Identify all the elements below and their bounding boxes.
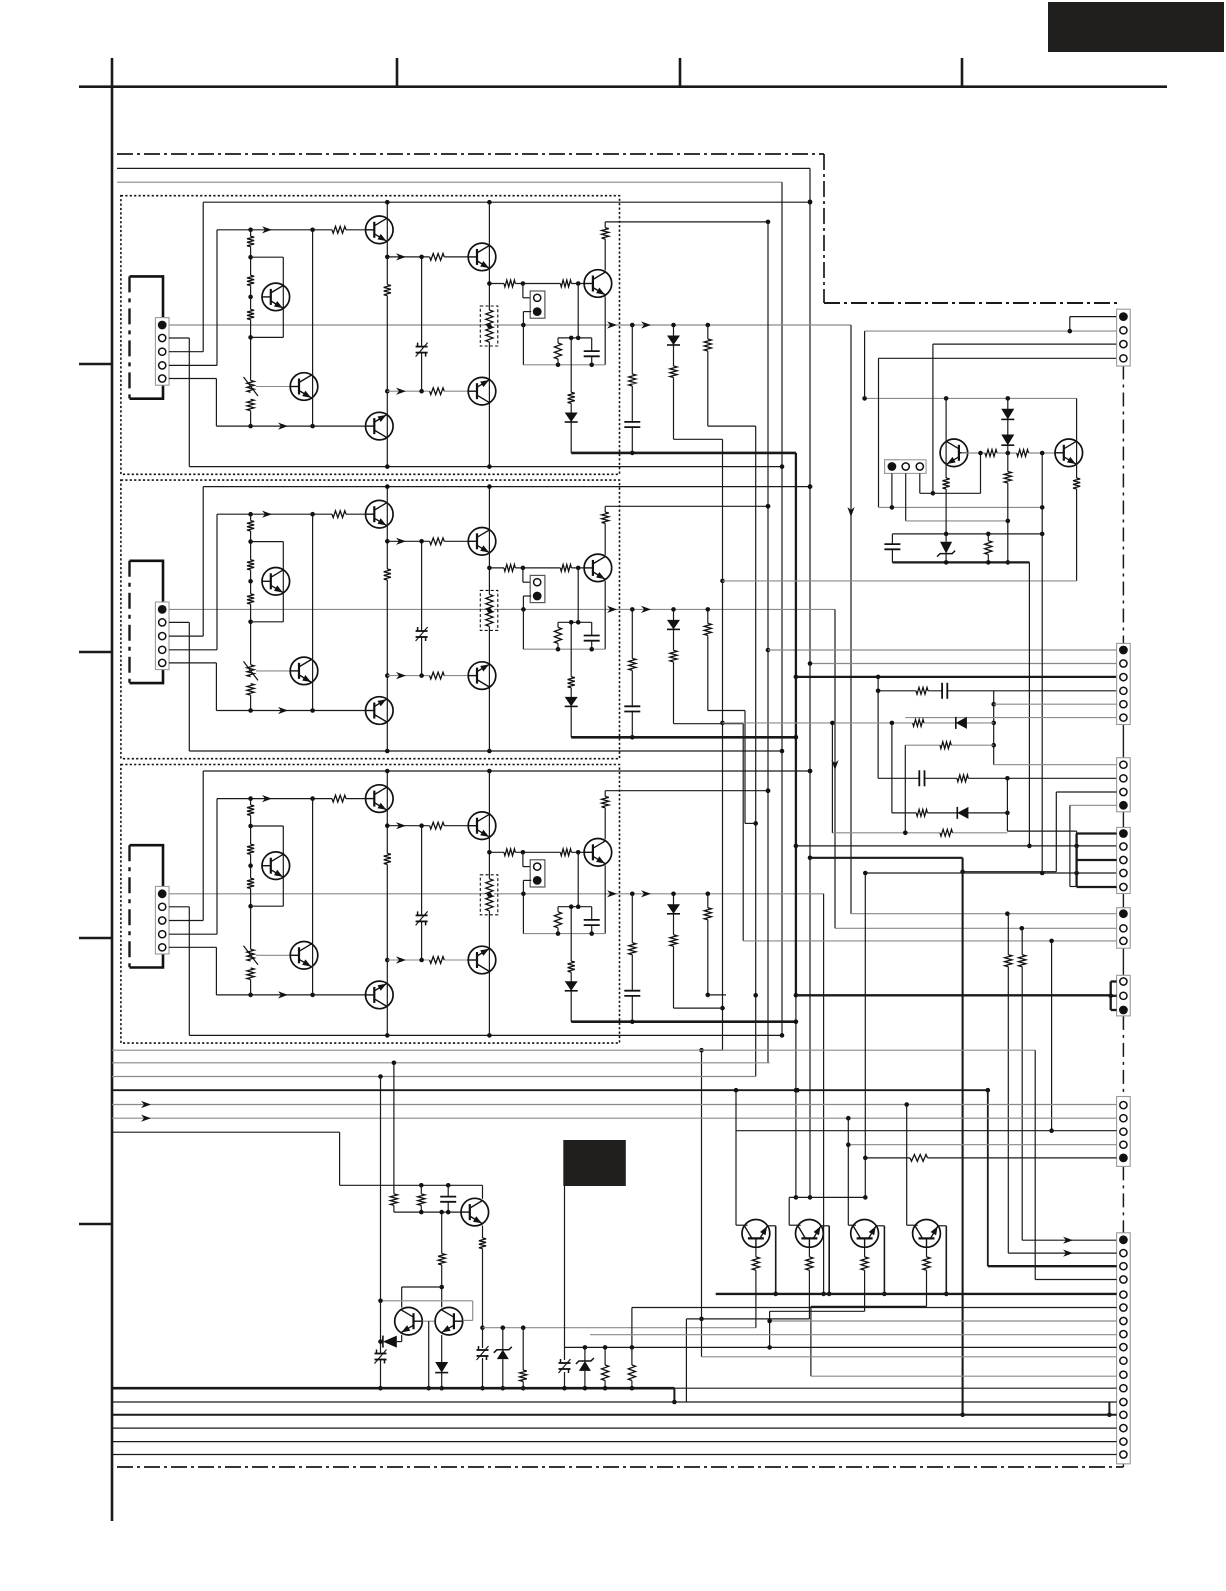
- dark bus vertical to CN6 pin3: [987, 1090, 989, 1266]
- sub-circuit emitter return to block chain: [723, 580, 1077, 582]
- block3 resistor-chain stub to heavy wire: [708, 994, 726, 996]
- heavy wire CN6 pin3: [988, 1265, 1117, 1267]
- block 1 Q1 emitter line to Q3: [387, 256, 468, 258]
- wire supply A to CN2 pin2: [810, 663, 1117, 665]
- wire CN6 pin11: [811, 1375, 1117, 1377]
- block 1 emitter return line: [523, 364, 605, 366]
- bias output line to Q14 base: [483, 1327, 756, 1329]
- transistor Q14: [742, 1220, 770, 1248]
- diode D22: [565, 697, 578, 707]
- block 3 resistor-chain joins heavy supply: [706, 993, 711, 998]
- block 3 Q7 collector wire with resistor: [604, 791, 606, 840]
- block 1 RC network top wire: [558, 337, 592, 339]
- wire CN6 bottom to chain: [1122, 1464, 1124, 1467]
- block 3 bottom rail: [189, 1034, 782, 1036]
- diode D-sub2: [1001, 435, 1014, 446]
- resistor R307: [383, 853, 392, 864]
- block 1 pin3 wire to top rail: [169, 351, 203, 353]
- transistor Q16: [366, 412, 394, 440]
- resistor R-QR emitter: [1072, 478, 1081, 489]
- block 2 RC network top wire: [558, 621, 592, 623]
- heavy output emitter rail to CN6 pin5: [716, 1293, 1117, 1295]
- resistor R318: [703, 908, 712, 920]
- wire CN6 pin8: [590, 1334, 1117, 1336]
- resistor R118: [703, 339, 712, 351]
- resistor R316: [628, 943, 637, 955]
- block 3 RC network top wire: [558, 906, 592, 908]
- transistor Q22 loop wire: [251, 541, 284, 543]
- resistor R-QL emitter: [942, 478, 951, 489]
- wire CN6 pin6: [632, 1307, 1117, 1309]
- block 1 zener D11: [416, 347, 428, 351]
- transistor Q27 output: [584, 554, 612, 582]
- wire CN1 pin1 jog: [1070, 316, 1117, 318]
- block 3 Q7 emitter wire: [604, 865, 606, 933]
- block 1 diode-chain jog to lower bus: [702, 1049, 723, 1051]
- resistor R106 horizontal: [332, 225, 346, 234]
- mute cluster riser to black box area: [564, 1186, 566, 1347]
- block 3 top rail: [203, 770, 810, 772]
- resistor R102: [246, 275, 255, 285]
- block 2 Q3-base to mid-line vertical: [421, 541, 423, 675]
- resistor R302: [246, 844, 255, 854]
- block 3 diode chain D33: [673, 894, 675, 1008]
- resistor R111: [560, 279, 571, 288]
- bias jumper connector CN-2b: [522, 568, 524, 582]
- capacitor C-row1: [943, 683, 946, 699]
- CNJ heavy bracket: [1110, 982, 1112, 1011]
- block 1 top rail: [203, 201, 810, 203]
- connector CN5b: [1117, 1097, 1131, 1167]
- block 2 Q1 emitter line to Q3: [387, 540, 468, 542]
- resistor R-m2: [631, 1347, 633, 1365]
- mirror pair base rail: [381, 1300, 473, 1302]
- capacitor C33: [591, 907, 593, 920]
- block 3 pin3 wire to top rail: [169, 920, 203, 922]
- resistor R110: [504, 279, 515, 288]
- block 2 input connector bracket: [130, 561, 164, 683]
- Q11 emitter wire with resistor: [482, 1226, 484, 1328]
- bias vertical from bus 1076: [380, 1077, 382, 1389]
- wire CN4 pin4 net vertical: [864, 873, 866, 1197]
- resistor R116: [628, 374, 637, 386]
- block 1 jumper to signal/emitter vertical: [522, 312, 524, 365]
- network spine 1: [877, 677, 879, 778]
- capacitor C-sub: [891, 534, 893, 544]
- block 2 signal to CN5a pin2: [818, 608, 835, 610]
- connector CN1: [1117, 309, 1131, 366]
- resistor R218: [703, 623, 712, 635]
- connector CN3: [1117, 758, 1131, 812]
- block 1 heavy output common wire: [571, 452, 796, 455]
- wire CN1 pin4 to 3-pin connector: [879, 357, 1118, 359]
- Q16 collector vertical: [847, 1118, 849, 1225]
- Q14 base resistor leg: [755, 1247, 757, 1327]
- resistor R-row6: [940, 828, 953, 837]
- block 2 resistor-chain wire down: [708, 710, 745, 712]
- amplifier block 1 dashed border: [121, 196, 620, 475]
- wire CN6 pin1: [1022, 1239, 1116, 1241]
- black component box: [563, 1140, 626, 1186]
- board boundary chain line toward CN1: [824, 302, 1120, 304]
- connector CN-21 input 5-pin: [155, 602, 169, 670]
- resistor R203: [246, 594, 255, 604]
- wire CN6 pin2 line: [1008, 1252, 1116, 1254]
- block 3 Q7 collector line exiting right: [605, 790, 768, 792]
- block 2 emitter return line: [523, 648, 605, 650]
- block 1 Q7 collector wire with resistor: [604, 222, 606, 271]
- frame tick left 1: [79, 363, 112, 366]
- resistor R207: [383, 569, 392, 580]
- resistor R-row3: [940, 741, 951, 750]
- QL/QR base line with resistors: [962, 452, 1055, 454]
- capacitor C-row4: [920, 770, 923, 786]
- CN6 pin13-14 bracket: [1108, 1402, 1110, 1415]
- resistor R310: [504, 848, 515, 857]
- transistor Q15: [468, 377, 496, 405]
- block 2 pin3 wire to top rail: [169, 635, 203, 637]
- board boundary chain CN3-CN4: [1122, 812, 1124, 828]
- block 2 board-edge chain segment: [128, 561, 130, 683]
- resistor R311: [560, 848, 571, 857]
- block 3 jumper to signal/emitter vertical: [522, 880, 524, 933]
- wire Q15 collector feed: [789, 1196, 865, 1198]
- diode stack D-sub1: [1007, 398, 1009, 453]
- transistor Q15: [796, 1220, 824, 1248]
- transistor QR: [1055, 439, 1083, 467]
- block 2 resistor chain R218: [707, 609, 709, 710]
- diode D-row2: [956, 717, 967, 729]
- wire CN6 pin15: [112, 1427, 1117, 1429]
- QR collector-emitter vertical: [1076, 398, 1078, 478]
- Q12 base stub: [422, 1320, 434, 1322]
- block 1 Q3 emitter / driver line: [489, 283, 584, 285]
- wire Q12 base net to ground bus: [428, 1321, 430, 1388]
- wire CN1 pin2 to sub-circuit: [865, 330, 1117, 332]
- resistor R201: [246, 521, 255, 531]
- capacitor C24: [624, 707, 640, 710]
- transistor Q34: [290, 942, 318, 970]
- resistor R308: [430, 821, 445, 830]
- network spine B: [1006, 778, 1008, 831]
- block 1 diode chain down: [570, 338, 572, 453]
- resistor R-row2: [913, 719, 924, 728]
- capacitor C-b1: [447, 1185, 449, 1196]
- block 1 Q3/Q5 vertical: [488, 202, 490, 466]
- network spine A: [993, 691, 995, 765]
- heavy auxiliary supply horizontal: [810, 857, 963, 859]
- transistor Q12: [395, 1307, 423, 1335]
- connector CN4: [1117, 827, 1131, 893]
- transistor Q26: [366, 697, 394, 725]
- wire T7 common to CN2 pin1: [768, 649, 1117, 651]
- connector CN-31 input 5-pin: [155, 886, 169, 954]
- block 2 mid line to Q5: [387, 675, 468, 677]
- network heavy line to CN2 pin3: [796, 676, 1117, 678]
- block 2 Q3 emitter / driver line: [489, 567, 584, 569]
- Q15 base resistor leg: [808, 1247, 810, 1319]
- page frame border: [79, 85, 1167, 88]
- block 2 upper bias line: [217, 513, 366, 515]
- block 1 Q1 collector-emitter vertical: [386, 202, 388, 284]
- block 1 signal to CN5a pin1: [818, 324, 851, 326]
- block 2 Q1 collector-emitter vertical: [386, 487, 388, 569]
- block 2 pin5 wire to lower bias line: [169, 662, 217, 664]
- diode stack lower wire: [1007, 453, 1009, 562]
- block 1 input connector bracket: [130, 276, 164, 398]
- transistor Q37 output: [584, 839, 612, 867]
- block 2 Q7 emitter wire: [604, 581, 606, 649]
- block 3 resistor chain wire: [250, 799, 252, 950]
- transistor Q11: [461, 1198, 489, 1226]
- block 3 emitter return line: [523, 933, 605, 935]
- block 3 lower bias line: [216, 994, 365, 996]
- block 2 Q4/Q6 vertical wire: [312, 514, 314, 710]
- wire CN6 pin10: [702, 1356, 1117, 1358]
- emitter resistor dashed box R112: [480, 306, 498, 346]
- resistor R-sub: [987, 534, 989, 541]
- heavy ground bus: [112, 1387, 674, 1390]
- frame tick left 2: [79, 651, 112, 654]
- board boundary chain line right upper: [823, 154, 825, 303]
- heavy wire supply to CNJ: [796, 994, 1111, 996]
- resistor R-mute: [910, 1154, 928, 1163]
- network row5 R+diode: [892, 812, 1008, 814]
- block 3 heavy output common wire: [571, 1020, 796, 1023]
- block 2 Q7 collector wire with resistor: [604, 506, 606, 555]
- board boundary chain CN5a-CNJ: [1122, 948, 1124, 975]
- network spine 3: [904, 745, 906, 833]
- resistor R315: [567, 961, 576, 972]
- wire CN1 pin3 to QL base node: [933, 343, 1117, 345]
- block 3 upper bias line: [217, 798, 366, 800]
- frame tick left 4: [79, 1223, 112, 1226]
- block 3 signal line from pin1: [169, 893, 818, 895]
- board boundary chain CN4-CN5a: [1122, 893, 1124, 907]
- block 2 cap chain C24: [631, 609, 633, 737]
- zener group bottom heavy wire: [892, 561, 1029, 563]
- resistor R-sp2: [1018, 955, 1027, 967]
- resistor R314: [557, 907, 559, 912]
- transistor Q35: [468, 946, 496, 974]
- block 3 diode chain down: [570, 907, 572, 1022]
- block 1 Q4/Q6 vertical wire: [312, 230, 314, 426]
- transistor Q16: [851, 1220, 879, 1248]
- resistor R214: [557, 622, 559, 627]
- resistor R107: [383, 285, 392, 296]
- amplifier block 2 dashed border: [121, 480, 620, 759]
- block 1 resistor-chain wire down: [708, 425, 756, 427]
- block 3 board-edge chain segment: [128, 845, 130, 967]
- wire CN6 pin4: [1035, 1279, 1116, 1281]
- CN4 heavy bracket: [1075, 834, 1077, 888]
- resistor R-b2: [420, 1185, 422, 1194]
- wire CN6 pin6 riser: [631, 1308, 633, 1348]
- transistor Q12 loop wire: [251, 256, 284, 258]
- resistor R206 horizontal: [332, 510, 346, 519]
- transistor Q13: [468, 243, 496, 271]
- block 2 top rail: [203, 486, 810, 488]
- resistor R117: [669, 366, 678, 378]
- resistor R101: [246, 236, 255, 246]
- block 2 signal line from pin1: [169, 608, 818, 610]
- frame tick top 3: [961, 58, 964, 87]
- block 2 diode chain down: [570, 622, 572, 737]
- zener D-sub3: [945, 534, 947, 542]
- resistor R115: [567, 392, 576, 403]
- wire CN6 pin7: [770, 1320, 1117, 1322]
- connector CNJ 3-pin jumper: [1117, 975, 1131, 1016]
- diode D33: [667, 904, 680, 914]
- wire CN6 pin12 continuation: [674, 1387, 1116, 1389]
- variable resistor VR31: [246, 949, 255, 961]
- block 2 pin2 wire to bottom rail: [169, 621, 189, 623]
- Q17 base resistor leg: [926, 1247, 928, 1306]
- block 3 pin4 wire to upper bias line: [169, 933, 217, 935]
- resistor R306 horizontal: [332, 794, 346, 803]
- block 2 diode chain D23: [673, 609, 675, 723]
- bus line y1050: [112, 1049, 1035, 1051]
- block 2 pin4 wire to upper bias line: [169, 649, 217, 651]
- diode D13: [667, 336, 680, 346]
- wire supply line A horizontal: [117, 167, 810, 169]
- block 1 lower bias line: [216, 425, 365, 427]
- block 1 signal line from pin1: [169, 324, 818, 326]
- resistor R-base-left: [985, 449, 997, 458]
- diode D23: [667, 620, 680, 630]
- transistor Q32 loop wire: [251, 825, 284, 827]
- protector Z-b1: [482, 1328, 484, 1348]
- Q14 collector vertical: [735, 1131, 737, 1226]
- block 2 jumper to signal/emitter vertical: [522, 596, 524, 649]
- QL collector-emitter vertical: [945, 398, 947, 478]
- wire CN5a pin3 riser to CN5b pin3: [1051, 941, 1053, 1131]
- variable resistor VR21: [246, 665, 255, 677]
- wire CN6 pin13 line: [112, 1401, 1117, 1403]
- Q15 collector stub: [789, 1224, 801, 1226]
- diode D-b1 Q12 emitter: [401, 1335, 403, 1342]
- 3-pin connector pin wires: [891, 473, 893, 507]
- bus line y1076: [112, 1076, 756, 1078]
- block 3 Q1 collector-emitter vertical: [386, 771, 388, 853]
- resistor R-base-right: [1017, 449, 1029, 458]
- block 2 Q7 collector line exiting right: [605, 505, 768, 507]
- transistor Q24: [290, 657, 318, 685]
- block 2 lower bias line: [216, 710, 365, 712]
- resistor R114: [557, 338, 559, 343]
- board boundary chain CN5b-CN6: [1122, 1166, 1124, 1232]
- capacitor C13: [591, 338, 593, 351]
- CN3 pin3 dogleg: [1056, 791, 1116, 793]
- transistor Q11: [366, 216, 394, 244]
- bus line y1063: [112, 1062, 770, 1064]
- resistor R-b3 to mirror pair: [441, 1212, 443, 1253]
- wire CN4 pin4 line: [865, 872, 1117, 874]
- transistor Q32: [262, 852, 290, 880]
- board boundary chain line bottom: [117, 1466, 1123, 1468]
- bus line y1118 to CN5b pin2: [112, 1117, 1117, 1119]
- wire CN6 pin10 riser: [701, 1319, 703, 1357]
- resistor R104: [246, 399, 255, 411]
- network row2 R+diode: [723, 722, 994, 724]
- heavy wire CN6 pin14: [112, 1414, 1117, 1416]
- capacitor C23: [591, 622, 593, 635]
- block 2 zener D21: [416, 632, 428, 636]
- wire zener group to CN4 pin2 line: [1028, 562, 1030, 846]
- resistor R204: [246, 684, 255, 696]
- connector CN6: [1117, 1233, 1131, 1464]
- resistor R209: [430, 671, 445, 680]
- transistor Q31: [366, 785, 394, 813]
- heavy auxiliary supply vertical: [962, 858, 964, 1415]
- block 2 diode-chain wire down to CN5a pin3: [674, 723, 744, 725]
- bias cluster base wire: [394, 1211, 461, 1213]
- block 3 Q4/Q6 vertical wire: [312, 799, 314, 995]
- transistor Q17: [913, 1220, 941, 1248]
- Q16 base resistor leg: [864, 1247, 866, 1311]
- network spineA exit to CN3 pin1: [994, 764, 1117, 766]
- board boundary chain line CN1-CN2: [1122, 366, 1124, 644]
- block 1 resistor chain R118: [707, 325, 709, 426]
- zener group top wire: [892, 533, 1042, 535]
- block 3 resistor chain R318: [707, 894, 709, 995]
- resistor R317: [669, 935, 678, 947]
- transistor Q12: [262, 283, 290, 311]
- wire CN6 pin17: [112, 1454, 1117, 1456]
- wire supply line A vertical: [809, 168, 811, 1197]
- transistor Q22: [262, 568, 290, 596]
- output emitter drops: [767, 1225, 775, 1227]
- bus line y1104 to CN5b pin1: [112, 1104, 1117, 1106]
- transistor Q34 base wire: [256, 954, 290, 956]
- transistor Q13: [435, 1307, 463, 1335]
- block 1 board-edge chain segment: [128, 276, 130, 398]
- transistor Q24 base wire: [256, 670, 290, 672]
- connector CN-11 input 5-pin: [155, 318, 169, 386]
- transistor Q14: [290, 373, 318, 401]
- block 1 Q7 collector line exiting right: [605, 221, 768, 223]
- resistor R113: [601, 228, 610, 239]
- resistor below diode stack: [1003, 472, 1012, 484]
- bias cluster top wire: [340, 1184, 483, 1186]
- capacitor C34: [624, 992, 640, 995]
- amplifier block 3 dashed border: [121, 765, 620, 1044]
- block 3 Q3-base to mid-line vertical: [421, 826, 423, 960]
- variable resistor VR11: [246, 380, 255, 392]
- protector Z-b4: [375, 1354, 387, 1358]
- zener Z-m2: [584, 1347, 586, 1361]
- block 1 bottom rail: [189, 466, 782, 468]
- connector CN5a: [1117, 908, 1131, 949]
- output transistors common collector vertical: [767, 222, 769, 1063]
- wire supply line B vertical: [781, 182, 783, 1035]
- diode D-row5: [957, 807, 968, 819]
- block 3 cap chain C34: [631, 894, 633, 1022]
- resistor R-row1: [916, 686, 928, 695]
- resistor R213: [601, 512, 610, 523]
- QR base vertical: [1041, 453, 1043, 534]
- network spine 2: [891, 723, 893, 813]
- block 2 bottom rail: [189, 750, 782, 752]
- dark bus line y1090: [112, 1089, 988, 1091]
- block 3 pin5 wire to lower bias line: [169, 946, 217, 948]
- block 3 zener D31: [416, 916, 428, 920]
- board boundary chain line top: [117, 153, 824, 155]
- wire CN4 pin2 line: [796, 845, 1117, 847]
- block 1 pin4 wire to upper bias line: [169, 364, 217, 366]
- block 1 cap chain C14: [631, 325, 633, 453]
- ground bus jog to CN6 pin13 line: [673, 1388, 675, 1402]
